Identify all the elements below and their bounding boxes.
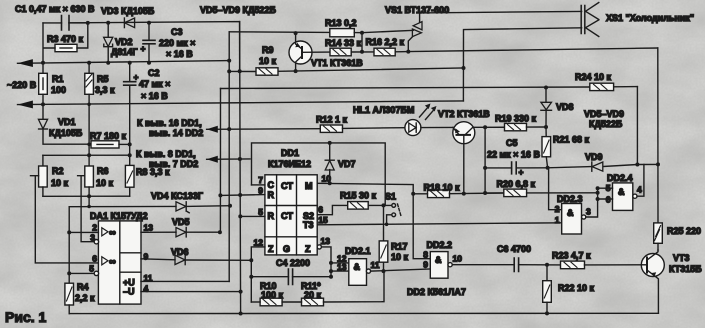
svg-text:R16 2,2 к: R16 2,2 к <box>366 37 405 47</box>
diode VD8 <box>541 88 552 130</box>
svg-text:∞: ∞ <box>109 228 116 239</box>
wire lower mains rail with arrow <box>18 101 464 105</box>
wire R13 top branch <box>229 31 330 34</box>
resistor R25 <box>654 223 663 250</box>
svg-text:100 к: 100 к <box>261 290 284 300</box>
svg-text:10 к: 10 к <box>96 178 114 188</box>
svg-text:× 16 В: × 16 В <box>166 49 193 59</box>
svg-text:DD1: DD1 <box>281 148 299 158</box>
capacitor C5 <box>485 162 547 177</box>
resistor R9 <box>256 68 278 75</box>
op-amp DA1.2 symbol <box>102 257 116 268</box>
wire VT2 emitter node down to C5 and R20 rows <box>484 127 486 193</box>
svg-text:9: 9 <box>144 252 149 262</box>
svg-text:R1: R1 <box>52 74 64 84</box>
svg-text:VD7: VD7 <box>338 159 356 169</box>
diode VD3 <box>124 18 134 28</box>
svg-text:R: R <box>268 190 275 200</box>
diode VD1 <box>38 104 91 144</box>
svg-text:VS1 ВТ137-600: VS1 ВТ137-600 <box>385 5 449 15</box>
svg-text:+: + <box>519 167 524 177</box>
svg-text:Z: Z <box>268 244 274 254</box>
svg-text:R7 180 к: R7 180 к <box>90 131 127 141</box>
zener VD2 <box>104 21 113 65</box>
svg-text:R2: R2 <box>52 166 64 176</box>
svg-text:R4: R4 <box>77 282 89 292</box>
svg-text:С2: С2 <box>148 68 160 78</box>
svg-text:∞: ∞ <box>109 257 116 268</box>
svg-text:VD9: VD9 <box>585 152 603 162</box>
svg-text:К выв. 8 DD1,: К выв. 8 DD1, <box>136 149 196 159</box>
capacitor C3 <box>141 21 156 65</box>
wire 0V spine <box>240 22 241 314</box>
svg-text:+: + <box>134 72 139 82</box>
svg-text:R3 470 к: R3 470 к <box>47 34 84 44</box>
svg-text:20 к: 20 к <box>304 290 322 300</box>
resistor R6 <box>85 155 94 196</box>
wire right column from VS1 row to R25 <box>657 48 659 223</box>
diode VD7 <box>325 143 334 185</box>
svg-text:VD5: VD5 <box>172 217 190 227</box>
svg-text:15: 15 <box>318 215 328 225</box>
svg-text:С4 2200: С4 2200 <box>276 258 310 268</box>
svg-text:VD5–VD9 КД522Б: VD5–VD9 КД522Б <box>200 5 276 15</box>
svg-text:R24 10 к: R24 10 к <box>575 72 612 82</box>
svg-text:+: + <box>141 44 146 54</box>
node C5 column on R18/R20 row <box>483 191 487 195</box>
wire R13 to R14/R16 junction <box>361 33 363 52</box>
svg-text:13: 13 <box>144 223 154 233</box>
svg-text:VD2: VD2 <box>115 37 133 47</box>
wire R2 tap to DA1 pin 6 <box>31 176 99 263</box>
svg-text:9: 9 <box>423 260 428 270</box>
svg-text:C1 0,47 мк × 630 В: C1 0,47 мк × 630 В <box>15 4 95 14</box>
transistor Q VT3 КТ315Б <box>641 250 664 313</box>
svg-text:&: & <box>618 187 625 197</box>
svg-text:4: 4 <box>637 185 642 195</box>
wire +9V rail left with mains arrow <box>18 61 230 64</box>
svg-text:C: C <box>268 180 275 190</box>
svg-text:VD8: VD8 <box>556 102 574 112</box>
svg-text:10 к: 10 к <box>259 56 277 66</box>
wire bottom rail <box>69 312 658 314</box>
svg-text:3: 3 <box>90 233 95 243</box>
svg-text:К176ИЕ12: К176ИЕ12 <box>268 159 311 169</box>
node VT2 collector on R18/R20 row <box>462 192 466 196</box>
svg-text:10: 10 <box>322 174 332 184</box>
svg-text:К выв. 16 DD1,: К выв. 16 DD1, <box>137 118 202 128</box>
svg-text:6: 6 <box>606 195 611 205</box>
wire DD1 pin 9 from 0V leader row <box>220 194 265 197</box>
wire DD2.4 pin 5 <box>598 187 613 189</box>
svg-text:КД522Б: КД522Б <box>589 119 623 129</box>
svg-text:22 мк × 16 В: 22 мк × 16 В <box>487 150 540 160</box>
svg-text:R15 30 к: R15 30 к <box>340 191 377 201</box>
switch S1 <box>392 204 401 217</box>
resistor R14 <box>330 48 374 56</box>
svg-text:47 мк ×: 47 мк × <box>139 79 170 89</box>
wire DA1 pin 4 -U to 0V column <box>141 291 241 293</box>
resistor R13 <box>330 29 364 37</box>
wire DA1 pin 5 with inverting bubble <box>69 264 98 276</box>
svg-text:220 мк ×: 220 мк × <box>159 38 195 48</box>
wire DA1 pin 2 <box>69 231 98 233</box>
connector XS1 "Холодильник" <box>581 3 599 37</box>
svg-text:10: 10 <box>453 254 463 264</box>
svg-text:&: & <box>567 208 574 218</box>
svg-text:КТ315Б: КТ315Б <box>669 264 702 274</box>
svg-text:R17: R17 <box>391 242 408 252</box>
resistor R19 <box>485 123 546 130</box>
wire top 0V from C1 to VD3/C3 and corner down <box>69 22 240 72</box>
LED HL1 АЛ307БМ <box>405 104 453 136</box>
svg-text:T3: T3 <box>303 220 314 230</box>
wire R9 row / VT1 collector row <box>229 68 463 72</box>
svg-text:С5: С5 <box>506 138 518 148</box>
zener VD4 <box>69 202 232 213</box>
svg-text:CT: CT <box>281 181 293 191</box>
capacitor C2 <box>124 61 139 145</box>
gate DD2.3 <box>562 204 586 235</box>
svg-text:VD4 КС133Г: VD4 КС133Г <box>151 191 203 201</box>
svg-text:R12 1 к: R12 1 к <box>316 115 348 125</box>
wire R7/C2 node down to R8 top row <box>129 144 131 155</box>
resistor R3 <box>43 23 88 63</box>
wire R6 tap to DA1 pin 3 <box>78 176 95 242</box>
svg-text:10 к: 10 к <box>51 178 69 188</box>
resistor R11* <box>282 271 384 306</box>
svg-text:DD2.1: DD2.1 <box>345 246 371 256</box>
wire DD2.2 pin 8 from R18 node <box>413 194 430 259</box>
wire VD5 node column <box>219 89 221 233</box>
svg-text:DD2 К561ЛА7: DD2 К561ЛА7 <box>407 287 466 297</box>
svg-text:HL1 АЛ307БМ: HL1 АЛ307БМ <box>353 105 414 115</box>
svg-text:R5: R5 <box>97 74 109 84</box>
wire DD1 pin 13 output with bubble <box>317 245 331 277</box>
wire feedback row B <box>221 87 638 89</box>
svg-text:2: 2 <box>92 223 97 233</box>
op-amp U DA1 К157УД2 <box>98 221 141 304</box>
resistor R24 <box>590 83 614 90</box>
svg-text:R19 330 к: R19 330 к <box>495 114 537 124</box>
svg-text:R13 0,2: R13 0,2 <box>325 18 357 28</box>
wire DA1 pin 13 output <box>141 231 176 233</box>
svg-text:6: 6 <box>318 205 323 215</box>
wire DD2.2 pin 10 output <box>452 264 514 266</box>
svg-text:DD2.4: DD2.4 <box>607 173 633 183</box>
diode VD6 <box>175 255 253 264</box>
svg-text:выв. 7 DD2: выв. 7 DD2 <box>149 159 198 169</box>
wire DD2.2 output row / C6 row <box>519 264 561 266</box>
wire R2/R6/R8 top row <box>43 154 130 156</box>
svg-text:–U: –U <box>123 287 135 297</box>
svg-text:&: & <box>354 262 361 272</box>
capacitor C6 <box>514 258 518 272</box>
svg-text:VD5–VD9: VD5–VD9 <box>584 109 624 119</box>
resistor R12 <box>320 125 405 132</box>
wire DD2.1 pin 13 <box>331 270 349 272</box>
node C1/R3 junction <box>86 21 90 25</box>
svg-text:VT1 КТ361В: VT1 КТ361В <box>311 58 363 68</box>
diode VD5 <box>176 228 222 237</box>
wire XS1 lower pin down-left column <box>463 28 581 101</box>
resistor R7 <box>87 141 131 148</box>
wire DD1 pin 7 <box>252 184 265 186</box>
wire S1 lower contact stub <box>387 215 392 225</box>
svg-text:R22 10 к: R22 10 к <box>558 283 595 293</box>
wire DA1 pin 3 with inverting bubble <box>90 233 98 244</box>
svg-text:VD3 КД105Б: VD3 КД105Б <box>101 6 155 16</box>
svg-text:R20 6,8 к: R20 6,8 к <box>497 179 536 189</box>
svg-text:12: 12 <box>254 238 264 248</box>
svg-text:DD2.2: DD2.2 <box>427 240 453 250</box>
svg-text:Рис. 1: Рис. 1 <box>5 309 47 325</box>
resistor R8 <box>125 155 134 196</box>
svg-text:S1: S1 <box>385 192 396 202</box>
svg-text:13: 13 <box>321 236 331 246</box>
svg-text:8: 8 <box>423 250 428 260</box>
wire +9V column A <box>228 32 230 282</box>
gate DD2.2 <box>430 252 452 279</box>
svg-text:5: 5 <box>258 207 263 217</box>
wire R2/R6/R8 bottom row <box>43 195 130 197</box>
wire R20 row from VT2 node to DD2.4 column <box>485 192 504 194</box>
svg-text:4: 4 <box>144 284 149 294</box>
gate DD2.1 <box>349 259 371 286</box>
resistor R15 <box>348 202 392 210</box>
resistor R23 <box>561 261 642 269</box>
svg-text:DD2.3: DD2.3 <box>557 194 583 204</box>
wire DD2.4 pin 6 <box>598 198 613 200</box>
svg-text:R21 68 к: R21 68 к <box>553 135 590 145</box>
resistor R5 <box>85 61 94 156</box>
svg-text:R25 220: R25 220 <box>667 226 701 236</box>
capacitor C4 <box>249 269 333 285</box>
wire DD2.1 pin 11 output to DD2.2 pin 9 <box>371 269 431 271</box>
wire VS1 bottom row to right column <box>408 48 658 52</box>
diode VD9 <box>548 162 658 171</box>
svg-text:С3: С3 <box>171 27 183 37</box>
wire DD1 pin 15 row to DD2.3 pin 1 <box>317 223 562 225</box>
svg-text:&: & <box>435 255 442 265</box>
svg-text:R14 33 к: R14 33 к <box>325 38 362 48</box>
svg-text:13: 13 <box>337 262 347 272</box>
resistor R16 <box>374 48 410 56</box>
svg-text:VD1: VD1 <box>58 117 76 127</box>
svg-text:Z: Z <box>305 244 311 254</box>
resistor R4 <box>65 283 74 313</box>
svg-text:11: 11 <box>371 260 380 270</box>
svg-text:× 16 В: × 16 В <box>141 91 168 101</box>
resistor R22 <box>543 263 552 316</box>
counter U DD1 К176ИЕ12 <box>265 175 317 255</box>
svg-text:R9: R9 <box>262 45 274 55</box>
svg-text:10 к: 10 к <box>391 252 409 262</box>
svg-text:CT: CT <box>281 211 293 221</box>
resistor R17 <box>379 205 388 273</box>
node VT2 emitter junction <box>483 125 487 129</box>
node VD8 top on feedback row <box>544 86 548 90</box>
wire DD2.3 pin 3 output up to DD2.4 inputs <box>586 188 598 217</box>
resistor R10 <box>251 298 282 306</box>
resistor R1 <box>39 61 48 107</box>
svg-text:выв. 14 DD2: выв. 14 DD2 <box>149 128 203 138</box>
svg-text:С6 4700: С6 4700 <box>497 244 531 254</box>
svg-text:VT2 КТ361В: VT2 КТ361В <box>438 109 490 119</box>
wire DA1 pin 11 +U to +9V column <box>141 280 229 282</box>
op-amp DA1.1 symbol <box>102 228 116 239</box>
svg-text:7: 7 <box>258 175 263 185</box>
resistor R18 <box>413 190 504 198</box>
svg-text:~220 В: ~220 В <box>7 80 37 90</box>
svg-text:R: R <box>268 211 275 221</box>
svg-text:G: G <box>283 244 290 254</box>
wire +9V leader / R12 row <box>207 128 321 131</box>
wire C5 node down to DD2.3 pin 2 <box>549 168 562 210</box>
transistor Q VT2 КТ361В <box>453 122 485 194</box>
svg-text:DA1 К157УД2: DA1 К157УД2 <box>90 211 148 221</box>
svg-text:5: 5 <box>606 183 611 193</box>
svg-text:VD6: VD6 <box>171 247 189 257</box>
wire DD1 pin 5 from 0V spine <box>240 215 265 217</box>
wire 0V leader <box>207 158 250 160</box>
svg-text:R18 10 к: R18 10 к <box>424 183 461 193</box>
wire R24 right corner down to VD9 row <box>636 87 638 165</box>
svg-text:КД105Б: КД105Б <box>49 128 83 138</box>
svg-text:R23 4,7 к: R23 4,7 к <box>552 251 591 261</box>
transistor Q VT1 КТ361В <box>289 31 330 71</box>
wire R6 bottom to VD4 row <box>88 196 90 206</box>
svg-text:5: 5 <box>89 264 94 274</box>
svg-text:2: 2 <box>555 204 560 214</box>
svg-text:1: 1 <box>555 215 560 225</box>
svg-text:VT3: VT3 <box>673 253 690 263</box>
resistor R20 <box>504 189 600 197</box>
svg-text:M: M <box>305 181 313 191</box>
svg-text:R6: R6 <box>97 166 109 176</box>
wire DD1 pin 12 <box>251 247 265 302</box>
wire DD1 clock loop top <box>252 143 386 206</box>
triac VS1 ВТ137-600 <box>362 13 422 52</box>
wire DD2.4 pin 4 output to right column <box>637 165 644 197</box>
wire VD4 node down through pins 2,5 to R4 <box>68 207 70 284</box>
capacitor C1 <box>43 16 88 31</box>
wire DD1 pin 6 jog to R15 <box>317 205 348 214</box>
svg-text:11: 11 <box>144 273 153 283</box>
svg-text:100: 100 <box>51 85 66 95</box>
wire DA1 pin 9 output <box>141 259 175 260</box>
svg-text:Д814Г: Д814Г <box>111 47 138 57</box>
wire DD2.1 pin 12 <box>331 262 349 264</box>
svg-text:6: 6 <box>92 254 97 264</box>
resistor R2 <box>39 155 48 196</box>
resistor R21 <box>542 127 551 170</box>
wire DD1 pin 10 row <box>317 183 413 194</box>
gate DD2.4 <box>613 183 638 211</box>
svg-text:9: 9 <box>258 186 263 196</box>
svg-text:XS1 "Холодильник": XS1 "Холодильник" <box>606 13 694 23</box>
svg-text:3,3 к: 3,3 к <box>95 85 115 95</box>
wire VS1 top to XS1 upper pin <box>420 11 582 13</box>
svg-text:2,2 к: 2,2 к <box>75 293 95 303</box>
svg-text:3: 3 <box>586 207 591 217</box>
wire VT1 emitter to +9V top branch <box>295 32 297 34</box>
